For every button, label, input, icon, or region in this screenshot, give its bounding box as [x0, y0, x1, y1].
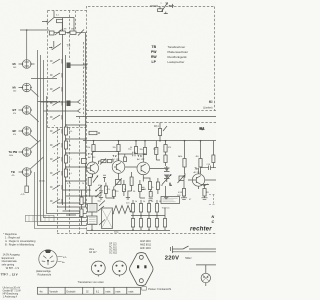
electrolytic plus T2: [124, 157, 127, 162]
capacitor C12: [133, 152, 135, 156]
capacitor C16: [201, 166, 217, 171]
contact arrow: [54, 30, 87, 36]
svg-text:Thermist.: Thermist.: [162, 207, 171, 210]
T3 collector resistor: [143, 178, 150, 182]
svg-text:Posten: Frontansicht: Posten: Frontansicht: [148, 288, 171, 291]
svg-text:TTP 7 → 12 V: TTP 7 → 12 V: [1, 273, 18, 277]
amp input contact arrows: [96, 186, 104, 212]
mains switch: [183, 246, 189, 249]
svg-text:1M: 1M: [71, 29, 74, 31]
resistor Rj below T4: [182, 189, 185, 197]
wire mesh lower: [87, 186, 166, 198]
svg-text:LP: LP: [152, 60, 157, 64]
switch contact row y201: [50, 199, 62, 204]
resistor R10 inline rail: [89, 131, 97, 134]
parts table dividers: [48, 287, 127, 294]
svg-text:TA PW: TA PW: [9, 150, 18, 154]
trimmer P2: [179, 176, 184, 181]
transistor T3: [137, 162, 150, 175]
resistor Rg2: [138, 185, 141, 192]
wire T1 collector chain: [98, 167, 100, 169]
resistor R18: [199, 159, 202, 168]
resistor Rd2: [112, 190, 115, 197]
svg-text:AC 122: AC 122: [137, 158, 145, 161]
wafer resistor w3: [64, 155, 67, 163]
svg-text:N: N: [212, 215, 215, 219]
resistor R5 cluster: [159, 122, 161, 128]
electrolytic C15: [149, 192, 152, 198]
svg-text:GF 117: GF 117: [89, 252, 97, 254]
svg-text:OC 812: OC 812: [109, 253, 118, 255]
resistor Rf2: [122, 185, 125, 192]
lamp circle: [201, 273, 210, 282]
svg-text:4m: 4m: [40, 291, 43, 293]
resistor grid column 1: [131, 204, 134, 213]
lamp feed wire: [196, 265, 216, 273]
socket Bu6: [22, 168, 31, 177]
wafer junction dots: [65, 124, 67, 126]
diode pair D1: [164, 168, 170, 172]
dashed mini box right: [209, 195, 216, 205]
ground bar g2: [126, 198, 130, 200]
svg-text:ohne: ohne: [89, 249, 95, 251]
mains wire lower: [172, 251, 216, 253]
TO-3 mounting hole bottom: [139, 279, 143, 283]
svg-text:Tonabnehmer: Tonabnehmer: [168, 45, 186, 49]
dashed wafer vertical B: [79, 117, 81, 234]
svg-text:Vorstufe: Vorstufe: [50, 290, 59, 293]
wire into trimmer: [150, 6, 160, 9]
socket Bu1: [22, 60, 31, 69]
resistor R11: [92, 145, 95, 152]
svg-text:sehr gering: sehr gering: [2, 263, 15, 266]
transistor T1: [87, 162, 99, 174]
svg-text:39k: 39k: [140, 149, 143, 151]
ground bar g1: [99, 198, 103, 200]
dashed wafer divider: [48, 127, 87, 129]
switch contact row y173: [50, 171, 62, 176]
solid wire y116: [76, 116, 216, 118]
wire with arrow y102: [41, 101, 78, 103]
svg-text:Transistoren von unten: Transistoren von unten: [78, 280, 105, 284]
switch contact row y89: [50, 87, 62, 92]
node on dashed line: [169, 5, 171, 7]
top-left contact box: [49, 31, 54, 35]
capacitor Cy: [99, 185, 102, 196]
dashed bottom y235: [57, 233, 216, 235]
ground bar g4: [164, 197, 168, 199]
svg-text:Endstufe: Endstufe: [67, 290, 77, 293]
electrolytic can 1: [88, 204, 98, 213]
resistor R17: [183, 159, 186, 168]
ground junction dots: [91, 229, 93, 231]
transistor T4: [192, 174, 204, 186]
dashed wafer vertical A: [69, 128, 71, 234]
svg-text:47k: 47k: [69, 131, 72, 133]
mains plug prongs: [171, 246, 173, 253]
parts table frame: [37, 287, 140, 294]
dashed rail upper y110: [87, 110, 217, 112]
svg-text:mais: mais: [106, 291, 112, 293]
svg-text:4,7k: 4,7k: [107, 189, 111, 191]
rail junction dots: [93, 140, 95, 142]
svg-text:C: C: [212, 220, 215, 224]
poti arrow: [162, 175, 171, 185]
wafer resistor w4: [64, 169, 67, 177]
trimmer on top dashed line: [158, 9, 163, 12]
resistor Rc2: [104, 186, 107, 194]
trimmer arrow: [162, 3, 168, 12]
socket Bu2: [22, 83, 31, 92]
trimmer RL: [116, 180, 122, 185]
resistor R16 stack: [164, 145, 167, 153]
svg-text:1k: 1k: [159, 201, 161, 203]
base wire bus: [94, 152, 146, 155]
svg-text:4,7k: 4,7k: [67, 183, 71, 185]
switch wafer vertical bar 3: [65, 55, 67, 210]
wires switch to amp: [57, 203, 87, 207]
svg-text:Rundfunkgerät: Rundfunkgerät: [168, 55, 187, 59]
ground bar Rk: [202, 198, 208, 200]
poti arrow T1: [93, 176, 98, 183]
svg-text:ANF 1016: ANF 1016: [140, 247, 151, 250]
svg-text:(500k): (500k): [39, 181, 45, 183]
socket Bu5: [22, 148, 31, 157]
resistor R3: [70, 31, 76, 34]
resistor grid column 4: [155, 204, 158, 213]
capacitor stand below: [164, 4, 174, 14]
svg-text:Mi: Mi: [13, 62, 16, 66]
svg-text:47k: 47k: [13, 113, 16, 115]
svg-text:mais: mais: [116, 291, 122, 293]
wafer resistor w2: [64, 141, 67, 149]
trimmer blob C10: [67, 63, 71, 69]
bus wire 3: [44, 60, 87, 218]
svg-text:47k: 47k: [12, 175, 15, 177]
resistor R19b: [212, 155, 215, 163]
zigzag divider: [113, 206, 131, 214]
resistor grid column 3: [147, 204, 150, 213]
dashed switch box top: [48, 10, 87, 12]
svg-text:GF 121: GF 121: [109, 244, 117, 246]
dashed enclosure left vertical x86: [86, 6, 88, 234]
emitter resistor Ra: [88, 178, 91, 186]
svg-text:48,1: 48,1: [154, 125, 159, 128]
svg-text:1k: 1k: [135, 201, 137, 203]
capacitor Cx1: [103, 175, 106, 182]
wire y47 TS contact: [49, 41, 61, 50]
DIN leader lines: [57, 257, 62, 262]
ground bar g3: [149, 199, 153, 201]
switch contact row y187: [50, 185, 62, 190]
svg-text:rechter: rechter: [190, 227, 212, 233]
svg-text:1k: 1k: [82, 183, 84, 185]
dashed enclosure top horizontal: [88, 6, 215, 8]
ground bar Rj: [181, 198, 187, 200]
top-left contact K1: [42, 11, 74, 33]
switch contact row y159: [50, 157, 62, 162]
svg-text:0,5k: 0,5k: [179, 156, 183, 158]
bus wire 2: [41, 55, 87, 222]
dashed switch box left upper: [47, 11, 49, 128]
svg-text:2k: 2k: [152, 187, 154, 189]
small box footer: [142, 287, 147, 291]
resistor grid column 2: [139, 204, 142, 213]
supply rail: [83, 140, 216, 142]
lower wafer resistors: [80, 197, 83, 205]
svg-text:mais: mais: [129, 291, 135, 293]
electrolytic can 2: [88, 216, 98, 225]
svg-text:TB: TB: [152, 45, 157, 49]
capacitor Cx2: [142, 187, 145, 189]
node junction: [67, 32, 69, 34]
transistor pinout TO2: [113, 261, 127, 275]
svg-text:AC 122: AC 122: [112, 158, 120, 161]
svg-text:1k: 1k: [69, 145, 71, 147]
DIN socket rear view: [39, 250, 57, 268]
output stub wires: [203, 180, 216, 186]
wafer pot box: [82, 159, 87, 164]
svg-text:50Hz: 50Hz: [185, 256, 192, 260]
wire with arrow y111: [44, 110, 78, 112]
svg-text:10k: 10k: [87, 147, 90, 149]
switch contact row y61: [50, 59, 62, 64]
svg-text:L: L: [170, 183, 172, 187]
svg-text:47k: 47k: [13, 134, 16, 136]
bus wire 1: [38, 50, 87, 226]
svg-text:7b: 7b: [195, 167, 199, 171]
wafer resistor w1: [64, 127, 67, 135]
ground rail: [87, 230, 171, 232]
junction dots on base bus: [93, 151, 95, 153]
switch contact row y103: [50, 101, 62, 106]
svg-text:Rückansicht: Rückansicht: [38, 273, 52, 276]
svg-text:Lautsprecher: Lautsprecher: [168, 60, 185, 64]
svg-text:RW: RW: [151, 55, 157, 59]
resistor below Bu6: [26, 176, 28, 186]
svg-text:TB: TB: [11, 170, 15, 174]
transistor T2: [112, 161, 125, 174]
switch wafer vertical bar 1: [62, 18, 64, 205]
trimmer blob 2: [67, 101, 71, 107]
right feed vertical wire: [85, 33, 87, 207]
svg-text:1 Änderung A: 1 Änderung A: [3, 296, 18, 299]
resistor grid column 5: [163, 219, 166, 228]
svg-text:AC 122: AC 122: [88, 156, 96, 159]
resistor Rk below T4: [203, 189, 206, 197]
dashed wafer vertical A2: [83, 42, 85, 117]
svg-text:B : Regler in Mittelstellung: B : Regler in Mittelstellung: [5, 244, 35, 247]
resistor R14: [143, 148, 146, 155]
big electrolytic C20: [102, 208, 113, 229]
svg-text:(Limiter): (Limiter): [203, 106, 213, 110]
TO-3 package outline: [130, 253, 153, 286]
svg-text:AC 117: AC 117: [194, 171, 202, 174]
switch contact row y117: [50, 115, 62, 120]
resistor Ri2: [156, 182, 159, 190]
trimmer C10 stub: [71, 64, 87, 66]
resistor R13: [134, 147, 137, 154]
bus link wires: [31, 79, 57, 102]
switch contact row y131: [50, 129, 62, 134]
svg-text:W 587 - 1 S: W 587 - 1 S: [6, 267, 20, 270]
dashed rail y122: [87, 122, 217, 124]
svg-text:T 2: T 2: [113, 154, 117, 158]
svg-text:1k: 1k: [124, 189, 126, 191]
svg-text:Mi: Mi: [13, 86, 16, 90]
switch contact row y145: [50, 143, 62, 148]
extra switch-amp wires: [63, 190, 87, 215]
mains wire upper: [172, 248, 216, 250]
svg-text:500k: 500k: [9, 155, 13, 157]
cable marker box: [26, 215, 55, 221]
svg-text:AC 121: AC 121: [109, 246, 117, 249]
svg-text:220V: 220V: [165, 256, 179, 262]
resistor R15: [155, 148, 158, 155]
svg-text:PW: PW: [151, 50, 157, 54]
svg-text:500: 500: [13, 67, 16, 69]
top-left switch arm: [55, 30, 62, 36]
svg-text:500: 500: [13, 91, 16, 93]
dashed wafer vertical A0: [69, 11, 71, 61]
TO-3 pins: [137, 265, 139, 268]
socket Bu4: [22, 127, 31, 136]
bus wire 5 corner: [35, 172, 87, 229]
socket Bu3: [22, 106, 31, 115]
svg-text:Plattenwechsler: Plattenwechsler: [168, 50, 188, 54]
coupling boxes T1-T2: [101, 160, 106, 163]
wire socket1 to top circuit: [20, 30, 49, 60]
resistor Re2: [130, 177, 133, 186]
svg-text:Kl: Kl: [209, 100, 212, 104]
svg-text:1k: 1k: [143, 201, 145, 203]
svg-text:39k: 39k: [113, 147, 116, 149]
dashed wafer vertical A1: [75, 11, 77, 31]
svg-text:T 1: T 1: [88, 152, 92, 156]
resistor R12: [117, 145, 120, 152]
svg-text:OC 602: OC 602: [109, 250, 118, 252]
switch contact row y75: [50, 73, 62, 78]
TO-3 mounting hole top: [139, 255, 143, 259]
svg-text:0,5R: 0,5R: [178, 192, 183, 194]
dashed enclosure right vertical: [214, 7, 216, 111]
thermistor box: [161, 197, 180, 204]
svg-text:TS: TS: [67, 44, 71, 48]
svg-text:BF: BF: [13, 129, 17, 133]
svg-text:38,1: 38,1: [200, 128, 205, 131]
grid crossbar: [131, 215, 165, 217]
bus wire 4: [47, 96, 87, 214]
transistor pinout TO1: [91, 261, 105, 275]
wafer cross wires: [66, 125, 87, 181]
dashed switch box left lower: [57, 128, 59, 234]
svg-text:T 3: T 3: [138, 154, 142, 158]
svg-text:2M: 2M: [64, 29, 67, 31]
svg-text:BT: BT: [13, 108, 17, 112]
resistor R2: [59, 31, 65, 34]
